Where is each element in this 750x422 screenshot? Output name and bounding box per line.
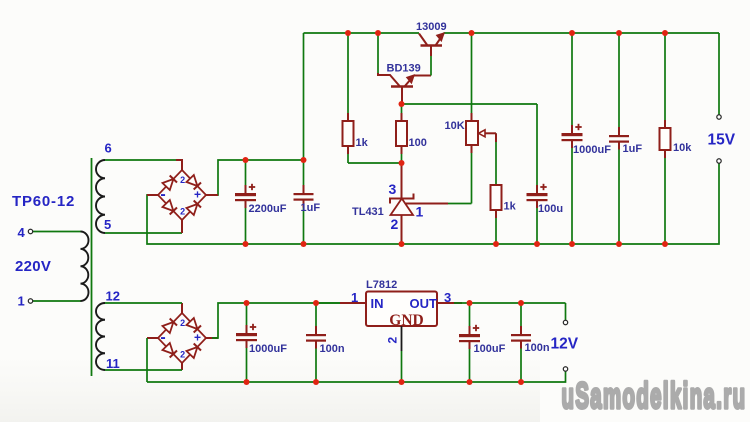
svg-text:GND: GND	[389, 312, 423, 329]
svg-text:100n: 100n	[320, 343, 345, 355]
svg-text:3: 3	[389, 181, 397, 197]
svg-text:15V: 15V	[708, 132, 736, 149]
svg-text:12V: 12V	[551, 336, 579, 353]
svg-text:11: 11	[106, 356, 120, 371]
svg-text:BD139: BD139	[387, 63, 421, 75]
svg-text:1: 1	[416, 204, 424, 220]
svg-text:5: 5	[104, 217, 111, 232]
svg-text:10k: 10k	[673, 142, 692, 154]
svg-text:100n: 100n	[525, 342, 550, 354]
svg-text:2200uF: 2200uF	[249, 203, 287, 215]
svg-text:-: -	[160, 186, 165, 203]
svg-text:-: -	[160, 329, 165, 346]
svg-text:1k: 1k	[356, 137, 369, 149]
svg-text:1000uF: 1000uF	[249, 343, 287, 355]
svg-text:1k: 1k	[504, 201, 517, 213]
svg-text:2: 2	[391, 216, 399, 232]
svg-text:10K: 10K	[445, 120, 465, 132]
svg-text:uSamodelkina.ru: uSamodelkina.ru	[562, 377, 747, 416]
svg-text:IN: IN	[371, 296, 384, 311]
svg-text:1: 1	[18, 294, 25, 309]
svg-text:100u: 100u	[538, 203, 563, 215]
svg-text:220V: 220V	[15, 258, 51, 275]
svg-text:100uF: 100uF	[474, 343, 506, 355]
svg-text:2: 2	[180, 207, 185, 217]
svg-text:100: 100	[409, 137, 427, 149]
svg-text:1uF: 1uF	[623, 143, 643, 155]
svg-text:TL431: TL431	[352, 206, 384, 218]
svg-text:6: 6	[105, 141, 112, 156]
svg-text:2: 2	[180, 350, 185, 360]
svg-text:2: 2	[386, 337, 400, 344]
svg-text:+: +	[194, 188, 201, 202]
svg-text:1: 1	[351, 290, 358, 305]
svg-text:4: 4	[18, 225, 26, 240]
svg-text:3: 3	[444, 290, 451, 305]
svg-text:1uF: 1uF	[301, 202, 321, 214]
svg-text:L7812: L7812	[366, 279, 397, 291]
svg-text:2: 2	[180, 318, 185, 328]
svg-text:+: +	[194, 331, 201, 345]
svg-text:12: 12	[106, 289, 120, 304]
svg-text:1000uF: 1000uF	[573, 144, 611, 156]
svg-text:OUT: OUT	[410, 296, 438, 311]
svg-text:13009: 13009	[416, 21, 447, 33]
svg-text:TP60-12: TP60-12	[12, 193, 75, 210]
svg-text:2: 2	[180, 175, 185, 185]
